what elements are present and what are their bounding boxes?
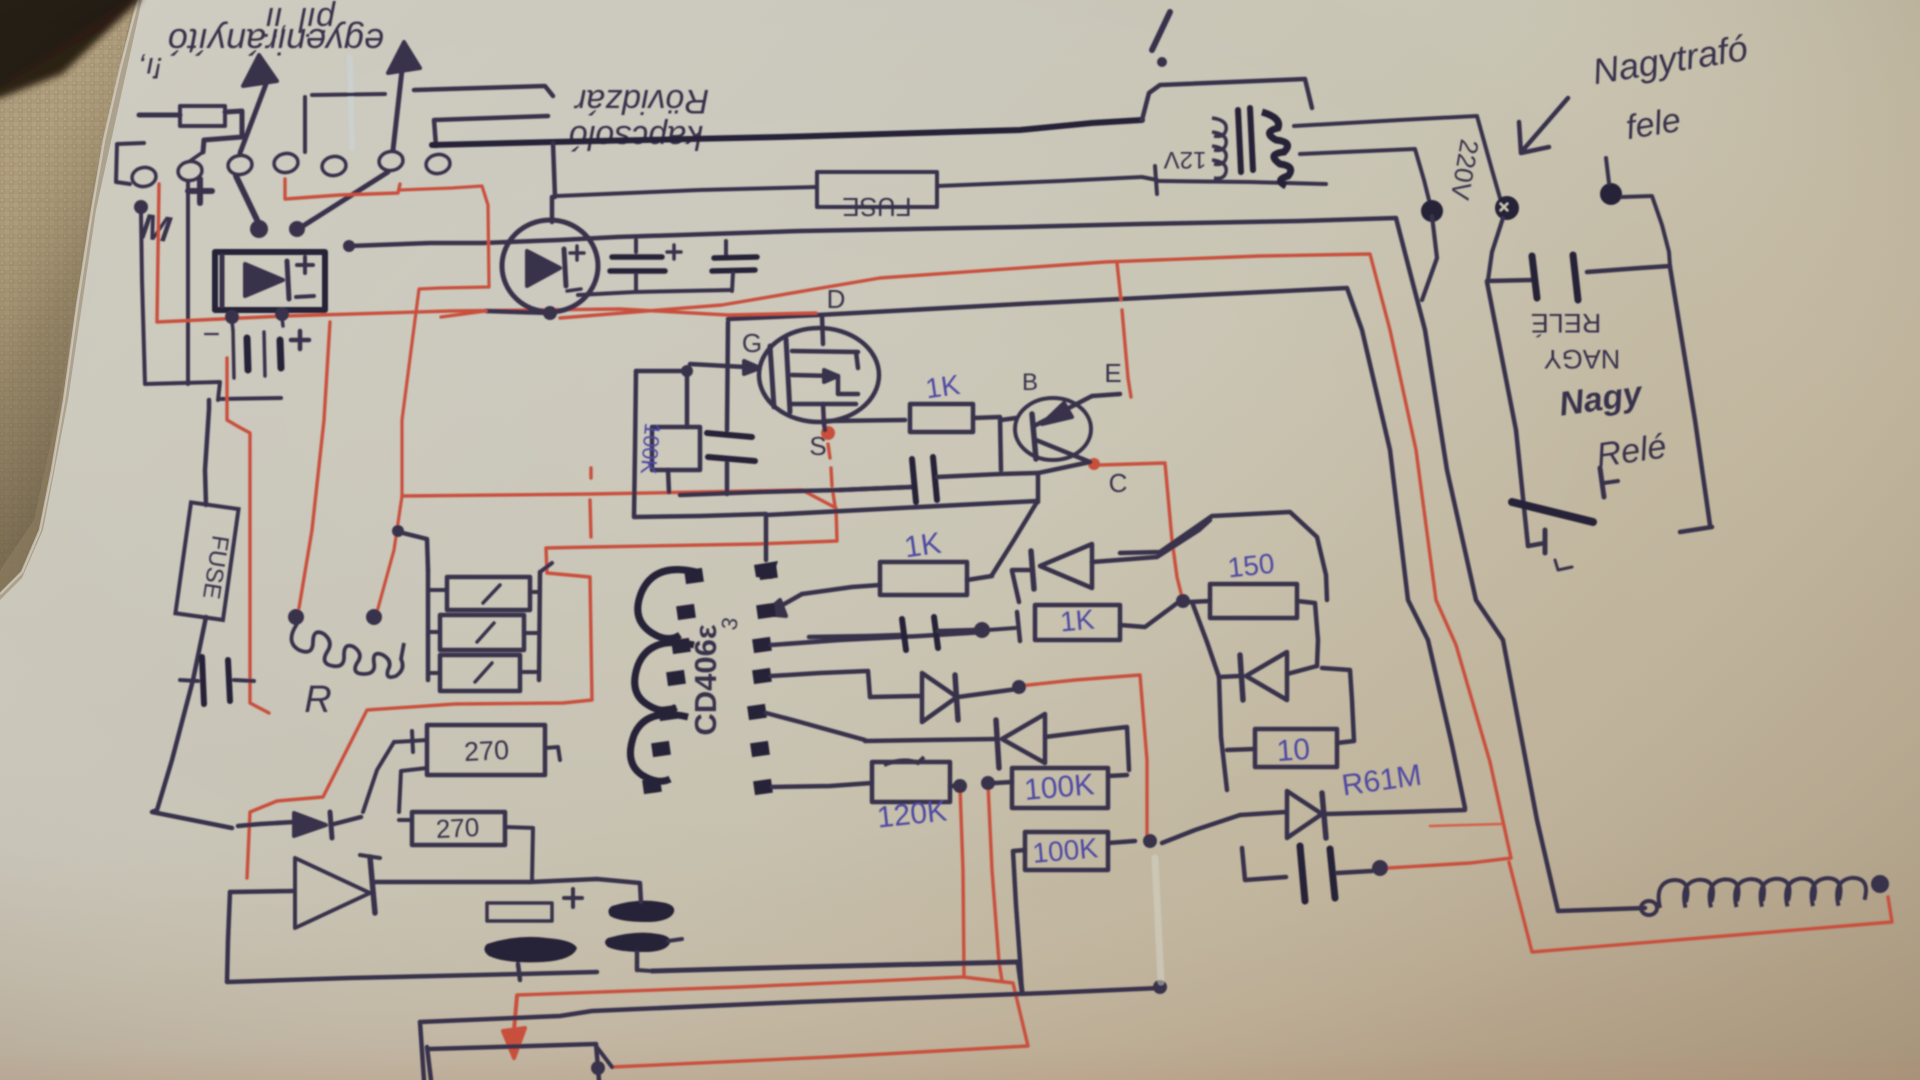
wire M bracket [116, 143, 144, 184]
transistor Q2 base bar [1032, 414, 1036, 459]
wire bottom left L [420, 988, 1160, 1022]
wire left border to battery [141, 212, 281, 400]
junction BR1 out1 [225, 310, 239, 324]
terminal dot C [1600, 183, 1622, 205]
junction T bottom [1153, 980, 1167, 994]
svg-text:100K: 100K [1031, 832, 1099, 869]
svg-text:Rövidzár: Rövidzár [573, 82, 709, 120]
wire B horizontal [766, 501, 1037, 515]
wire red long U bottom [517, 977, 1028, 1067]
wire red dashes below S [828, 444, 830, 458]
wire pin3 to cap junction [771, 632, 985, 645]
terminal dot A [1421, 200, 1443, 222]
wire drain [822, 315, 823, 344]
diode D2 [230, 891, 294, 892]
wire red battery branch [227, 358, 269, 713]
mosfet Q1 channel bar [786, 339, 790, 412]
switch contacts [131, 166, 157, 188]
diode D3 [1012, 571, 1019, 602]
capacitor C-el2 plate top [608, 901, 674, 922]
junction C4 right [974, 622, 990, 638]
transistor Q2 emitter [1036, 396, 1092, 425]
switch arm 2 [289, 221, 305, 237]
capacitor C6 relay [1532, 256, 1537, 298]
wire red from dot2 down [988, 784, 1002, 981]
ic CD4069 C-bracket 3 [630, 714, 688, 781]
resistor stack left bar [426, 570, 431, 680]
wire battery to fuse [205, 400, 209, 505]
resistor 120K [872, 762, 950, 802]
resistor 1a [447, 577, 530, 610]
wire cap bottoms [578, 290, 732, 295]
wire fuse to transformer [937, 177, 1157, 186]
wire emitter lead [1092, 394, 1120, 396]
fuse FUSE horizontal [817, 172, 937, 207]
junction dot bottom [591, 1061, 605, 1075]
wire bottom mid extension [652, 962, 1022, 991]
wire red C to 150 junction [1088, 458, 1100, 470]
wire red to coil right [377, 186, 489, 612]
svg-text:10: 10 [1276, 733, 1312, 768]
junction 150 left [1176, 594, 1190, 608]
capacitor C-left [180, 680, 198, 681]
diode D4 [870, 696, 920, 697]
wire arrow to IC pin [779, 594, 802, 607]
capacitor C-el1 plate bottom [484, 937, 577, 963]
wire collector down [1038, 462, 1090, 502]
svg-text:C: C [1109, 468, 1128, 498]
correction streak [350, 57, 352, 148]
svg-text:12V: 12V [1164, 146, 1207, 173]
resistor R0 [180, 106, 225, 126]
capacitor C2 plates [724, 241, 728, 255]
wire rail down to 10 [1219, 677, 1227, 790]
relay box NAGY RELE [1487, 282, 1528, 546]
resistor 1K a [910, 404, 973, 432]
wire main bus right rail [349, 218, 1645, 911]
mosfet Q1 taps [792, 351, 858, 352]
resistor 100K b [1012, 768, 1108, 808]
svg-text:270: 270 [463, 735, 510, 767]
wire to contact4 [303, 97, 307, 152]
svg-text:E: E [1104, 358, 1121, 388]
wire secondary top lead [1294, 116, 1500, 198]
transformer T1 secondary winding [1262, 112, 1291, 186]
junction dot bus left [343, 240, 355, 252]
wire red dashes x591 [589, 468, 592, 478]
capacitor C-el1 plate top [487, 903, 552, 921]
arrow to Nagytrafo [1523, 98, 1568, 150]
switch arm 1 [236, 176, 258, 222]
wire bus top thick [432, 120, 1142, 145]
wire bump over 150 [1120, 512, 1327, 600]
svg-text:D: D [827, 284, 846, 314]
ic CD4069 pins [684, 568, 704, 584]
wire pin7 to 120K [772, 783, 872, 787]
svg-text:!̇ı,: !̇ı, [137, 51, 162, 84]
wire gate lead [690, 364, 745, 367]
resistor 100K c [1025, 832, 1108, 870]
transformer T1 core [1238, 110, 1241, 172]
resistor 10 [1227, 749, 1255, 750]
wire R0 to contact2 [190, 152, 203, 161]
wire S down [764, 514, 769, 560]
wire pin5 to diode5 [766, 713, 865, 740]
wire contact2 down [186, 181, 190, 384]
svg-text:G: G [742, 328, 762, 358]
wire red vertical to coil left [299, 322, 330, 608]
mosfet Q1 gate bar [770, 346, 774, 407]
wire cross top [312, 94, 385, 95]
terminal dot B [1495, 196, 1519, 220]
resistor 270b [412, 812, 505, 845]
diode D5 [865, 739, 996, 741]
wire tick above dot C [1606, 158, 1609, 183]
svg-text:RELÉ: RELÉ [1531, 308, 1602, 338]
wire red E vertical [1117, 263, 1121, 300]
wire 270a to 270b [399, 768, 427, 812]
wire source junction [824, 424, 825, 430]
mark L [1555, 560, 1572, 570]
junction D4 right [1012, 680, 1026, 694]
terminal M dot [134, 200, 148, 214]
svg-text:CD406ε: CD406ε [688, 624, 723, 735]
correction streak 2 [1155, 858, 1161, 982]
ic CD4069 C-bracket 2 [635, 643, 694, 711]
svg-text:R: R [304, 679, 331, 721]
capacitor C-el2 plate bottom [605, 933, 670, 952]
capacitor C1 plates [612, 254, 662, 260]
svg-text:NAGY: NAGY [1544, 344, 1621, 374]
switch arrow 1 [240, 84, 266, 153]
wire tick [1155, 166, 1157, 194]
relay box bottom + switch [1528, 543, 1545, 546]
wire dot C to relay box [1622, 196, 1670, 266]
wire transformer top bracket [1142, 79, 1312, 120]
diode D7 [1240, 812, 1286, 815]
capacitor C4 [809, 635, 900, 637]
svg-text:150: 150 [1226, 548, 1276, 584]
battery B1 [233, 330, 234, 378]
switch arrow 2 [393, 70, 402, 150]
wire A horizontal [680, 487, 912, 495]
svg-text:100K: 100K [1023, 768, 1096, 807]
fuse FUSE vertical [175, 502, 238, 620]
wire red arrow down [514, 996, 517, 1030]
wire rail D3-D6 [1207, 642, 1219, 677]
wire BR2 top lead [550, 197, 555, 222]
svg-text:1K: 1K [1059, 604, 1096, 638]
wire red left vertical [157, 184, 816, 322]
wire red main bus rising [560, 254, 1511, 858]
resistor 150 [1210, 584, 1297, 618]
capacitor C5 [1242, 848, 1286, 880]
wire D bus to diode rail [728, 288, 1465, 808]
wire rovidzar a [414, 86, 553, 96]
junction 120K right 1 [953, 779, 967, 793]
wire secondary bottom lead [1300, 149, 1429, 200]
resistor stack right bar [539, 572, 540, 680]
resistor 270a [427, 725, 545, 775]
inductor L1 [1641, 901, 1657, 915]
resistor stack wire top [392, 525, 404, 537]
relay coil R [288, 609, 304, 625]
capacitor C-gate [727, 322, 728, 430]
resistor 1c [440, 655, 520, 691]
svg-text:B: B [1022, 369, 1038, 396]
junction cap red dot [1372, 860, 1388, 876]
wire S to 1K [827, 420, 905, 421]
mosfet Q1 circle [759, 328, 879, 422]
wire red under coil [1509, 862, 1892, 952]
svg-text:FUSE: FUSE [842, 192, 911, 222]
wire rovidzar b [434, 116, 548, 146]
wire D2 left down [227, 892, 597, 982]
svg-text:270: 270 [435, 812, 480, 844]
wire red horizontal A [247, 490, 837, 878]
wire gate loop left [634, 371, 765, 517]
wire pin4 to diode4 [771, 671, 870, 697]
wire red from dot1 down [960, 787, 964, 975]
junction coil end [1871, 875, 1889, 893]
diode D1 [238, 822, 294, 826]
wire 270a diagonal down [363, 742, 394, 812]
bridge rectifier BR1 diode [245, 264, 283, 296]
transistor Q2 collector [1036, 440, 1090, 462]
label + charge [188, 188, 212, 194]
diode D6 [1219, 676, 1240, 677]
bridge rectifier BR2 circle [502, 220, 598, 312]
svg-text:100K: 100K [636, 422, 665, 476]
junction BR2 bottom [543, 306, 557, 320]
wire red box right of diodes [1019, 675, 1147, 841]
mark 1. [1152, 12, 1170, 50]
wire red switch branch [285, 179, 400, 199]
ic CD4069 C-bracket 1 [638, 570, 700, 639]
bridge rectifier BR1 box [215, 252, 325, 310]
wire red to capacitor dot [1388, 858, 1511, 868]
svg-text:−: − [202, 318, 220, 351]
wire D2 to caps [376, 879, 640, 883]
bridge rectifier BR2 diode [527, 251, 560, 286]
capacitor C3 [840, 487, 912, 490]
svg-text:1K: 1K [924, 369, 963, 405]
junction 100K c right [1143, 834, 1157, 848]
wire transformer bottom bracket [1159, 181, 1326, 184]
label plus [291, 338, 309, 343]
junction BR1 out2 [275, 307, 289, 321]
resistor 1K c [1017, 612, 1020, 641]
junction bottom right of box [596, 1046, 612, 1067]
wire rect2 top lead [553, 143, 555, 197]
resistor 1K b [880, 562, 967, 595]
wire diagonal C to 1Kb [992, 502, 1037, 575]
resistor 1b [440, 615, 524, 650]
junction 120K right 2 [981, 776, 995, 790]
wire to fuse [556, 187, 817, 196]
resistor 100K gate [652, 427, 700, 470]
transistor Q2 circle [1015, 398, 1091, 460]
wire red fragment bottom right [1430, 824, 1501, 826]
relay box bottom [427, 1047, 431, 1080]
wire 100K c left down [1013, 850, 1025, 993]
wire gate node [636, 369, 690, 374]
svg-text:1K: 1K [902, 527, 943, 565]
wire fuse down to corner [152, 617, 232, 828]
